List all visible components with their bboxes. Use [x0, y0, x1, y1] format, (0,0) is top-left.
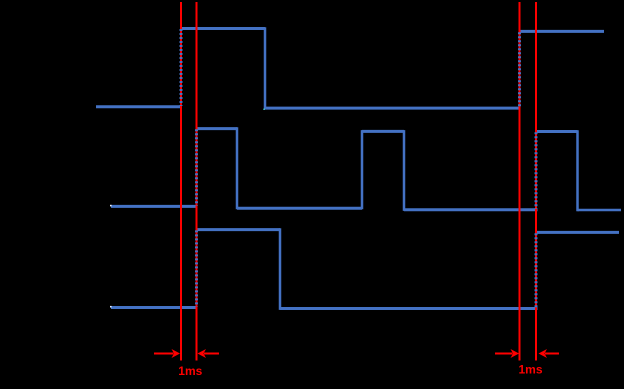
- waveform W3 baseline segment 1: [111, 306, 197, 309]
- cursor line T2b (red): [535, 2, 537, 361]
- waveform W2 baseline segment 4: [578, 209, 622, 212]
- waveform W1 baseline segment 2: [265, 107, 520, 110]
- waveform W3 falling edge 1: [279, 228, 282, 310]
- waveform W2 falling edge 3: [576, 130, 579, 211]
- dimension arrow D2 right (red): [539, 349, 560, 358]
- waveform W3 high segment 2: [535, 231, 619, 234]
- svg-text:1ms: 1ms: [518, 363, 542, 377]
- waveform W2 baseline segment 1: [111, 205, 197, 208]
- waveform W1 high segment 2: [519, 30, 605, 33]
- cursor line T2a (red): [519, 2, 521, 361]
- waveform W2 falling edge 1: [236, 127, 239, 209]
- waveform W2 baseline segment 2: [237, 207, 362, 210]
- svg-text:1ms: 1ms: [178, 364, 202, 378]
- waveform W2 high segment 3: [535, 130, 578, 133]
- waveform W1 falling edge 1: [264, 27, 267, 109]
- cursor line T1b (red): [196, 2, 198, 361]
- waveform W2 high segment 2: [362, 130, 404, 133]
- waveform W1 high segment 1: [180, 27, 265, 30]
- waveform W2 high segment 1: [196, 127, 238, 130]
- waveform W2 baseline segment 3: [404, 208, 538, 211]
- dimension arrow D1 right (red): [198, 349, 220, 358]
- waveform W2 falling edge 2: [403, 130, 406, 211]
- waveform W3 dotted rising edge 2: [535, 233, 538, 308]
- waveform W2 dotted rising edge 1: [195, 129, 198, 205]
- node dot W3 start (artifact): [110, 306, 112, 308]
- node dot W2 start (artifact): [110, 205, 112, 207]
- node dot W1 fall corner (artifact): [263, 109, 264, 110]
- dimension arrow D2 left (red): [495, 349, 519, 358]
- dimension arrow D1 left (red): [154, 349, 180, 358]
- waveform W3 high segment 1: [196, 228, 281, 231]
- waveform W1 baseline segment 1: [96, 105, 181, 108]
- cursor line T1a (red): [180, 2, 182, 361]
- waveform W3 dotted rising edge 1: [195, 230, 198, 306]
- waveform W2 rising edge 2: [361, 130, 364, 209]
- waveform W2 dotted rising edge 3: [535, 132, 538, 209]
- waveform W1 dotted rising edge 2: [518, 32, 521, 107]
- waveform W1 dotted rising edge 1: [180, 29, 183, 106]
- waveform W3 baseline segment 2: [280, 307, 538, 310]
